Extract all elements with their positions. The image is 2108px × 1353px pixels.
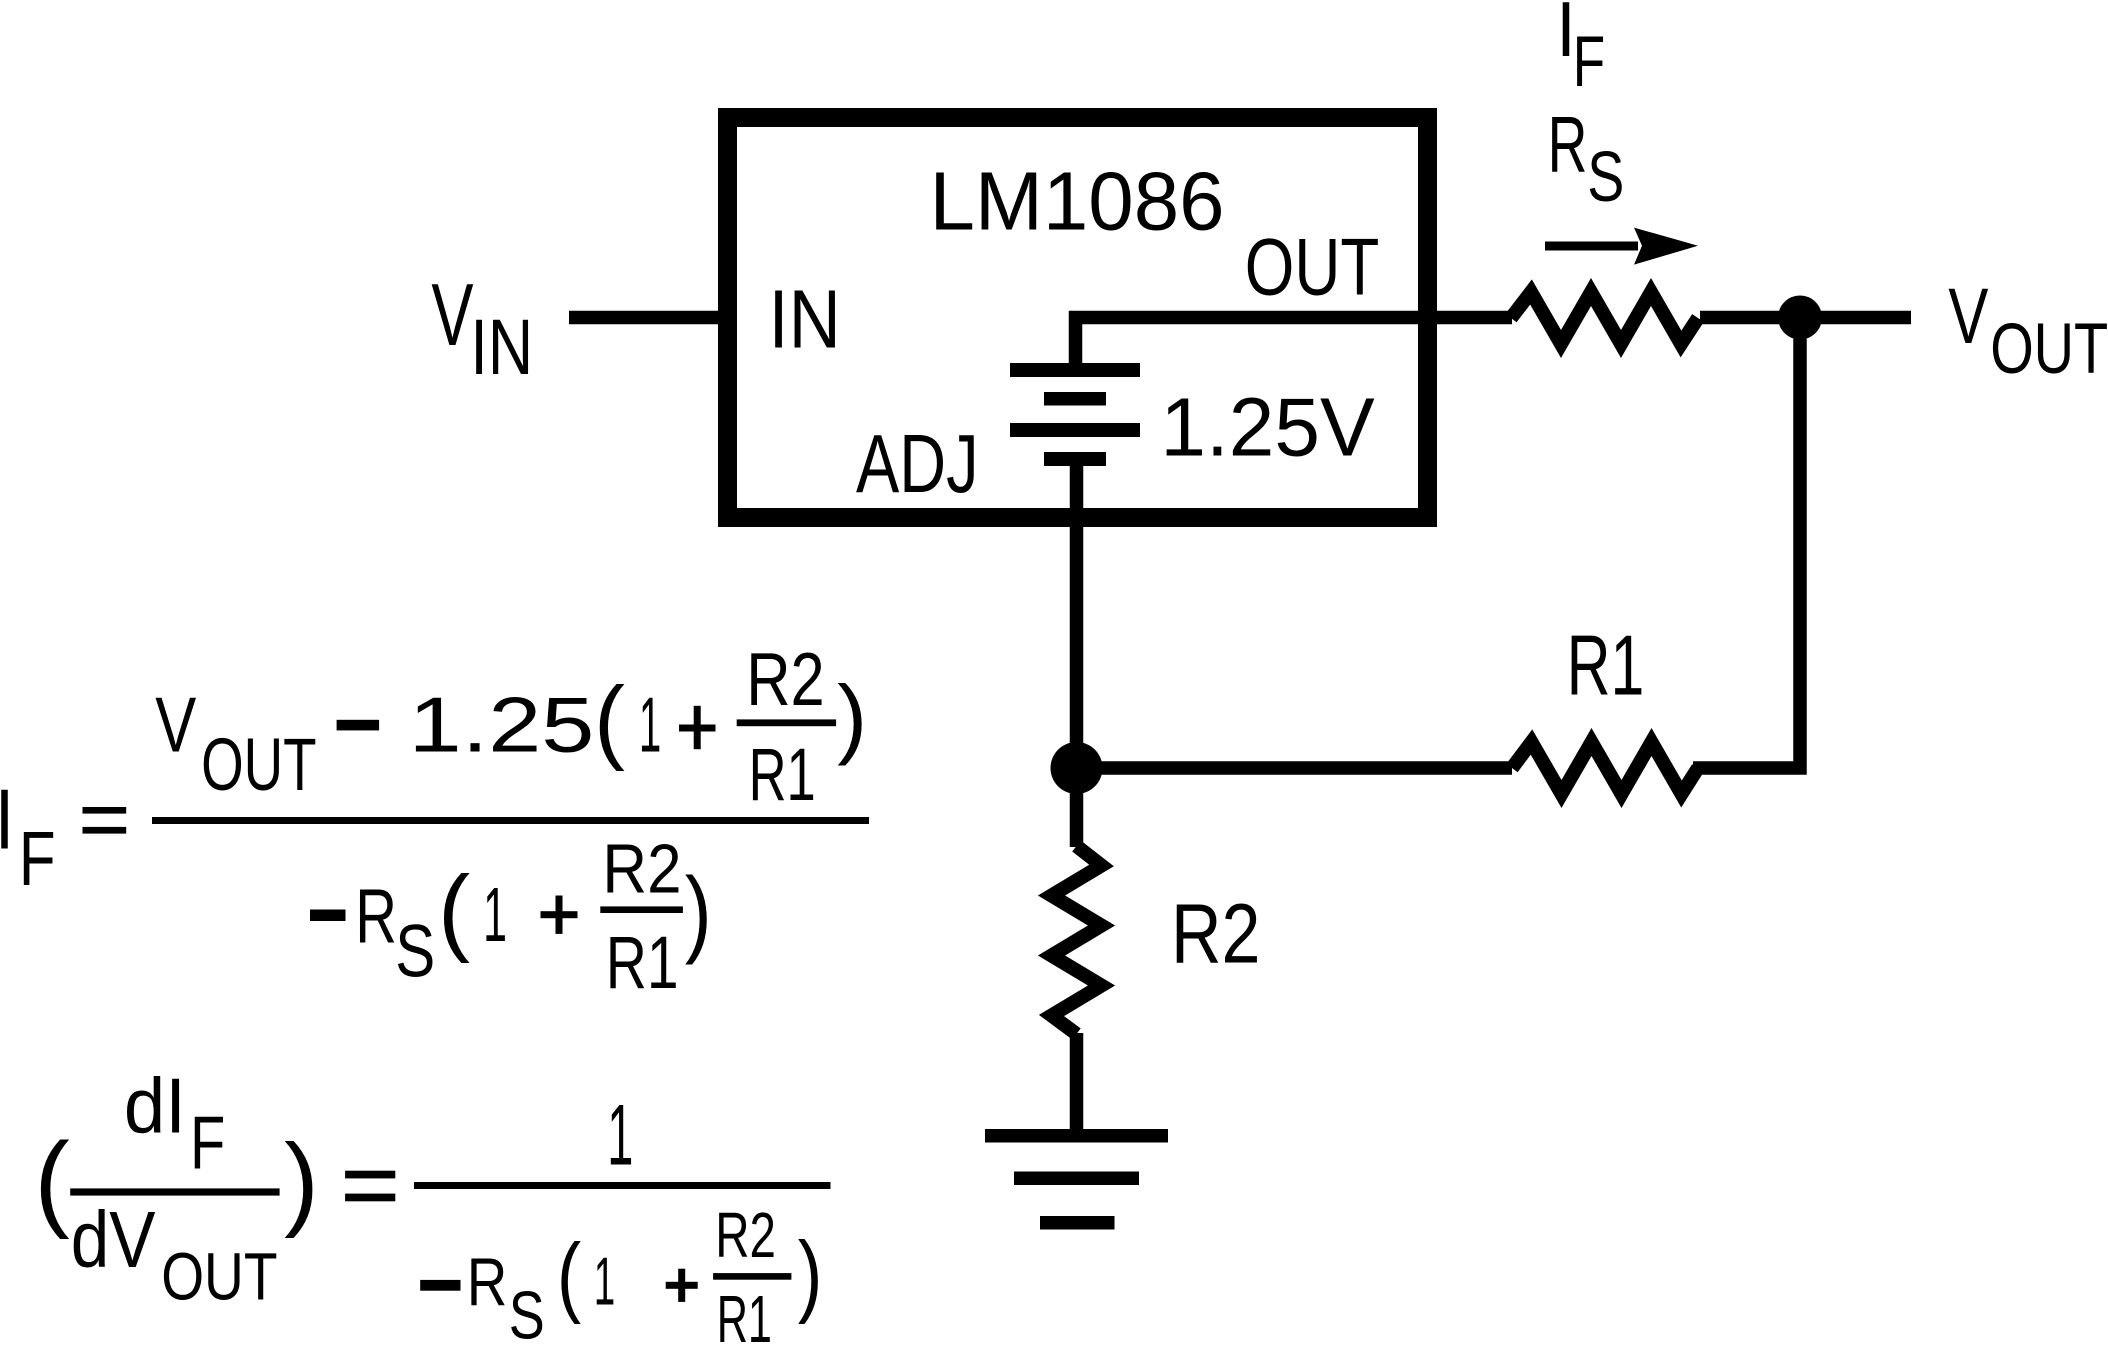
svg-text:S: S: [509, 1279, 545, 1353]
formula1 main fraction bar: [152, 817, 869, 824]
formula1 den plus horizontal: [541, 911, 578, 918]
svg-text:S: S: [1587, 137, 1624, 217]
svg-text:V: V: [155, 681, 196, 769]
formula2 den minus: [420, 1280, 460, 1291]
svg-text:dV: dV: [71, 1195, 156, 1284]
svg-text:I: I: [0, 773, 14, 868]
node VOUT dot: [1778, 296, 1822, 340]
svg-text:): ): [837, 668, 867, 766]
wire VIN to IN pin: [569, 311, 727, 325]
formula2 den mini fraction bar: [713, 1273, 791, 1280]
svg-text:IN: IN: [470, 303, 533, 391]
svg-text:R2: R2: [746, 637, 825, 721]
svg-text:R2: R2: [715, 1199, 776, 1271]
battery V1 short plate 4: [1044, 452, 1106, 466]
formula1 den plus vertical: [556, 896, 563, 934]
svg-text:(: (: [557, 1225, 582, 1325]
svg-text:dI: dI: [124, 1062, 186, 1150]
svg-text:IN: IN: [769, 273, 841, 366]
svg-text:V: V: [1948, 272, 1988, 360]
svg-text:OUT: OUT: [1990, 309, 2108, 389]
resistor R2: [1052, 846, 1102, 1034]
svg-text:F: F: [190, 1101, 225, 1185]
wire battery top stub: [1069, 311, 1083, 364]
svg-text:R: R: [1548, 100, 1588, 189]
arrow IF shaft: [1545, 242, 1638, 251]
formula1 num plus vertical: [694, 706, 701, 749]
formula1 num plus horizontal: [679, 725, 716, 732]
svg-text:OUT: OUT: [201, 723, 317, 806]
formula1 equals bottom bar: [83, 827, 127, 834]
svg-text:LM1086: LM1086: [930, 155, 1225, 248]
wire R1 to output node: [1693, 318, 1800, 768]
node A junction dot: [1051, 742, 1103, 794]
svg-text:OUT: OUT: [161, 1240, 277, 1315]
wire RS to VOUT: [1700, 311, 1911, 325]
ground bar 1: [985, 1129, 1168, 1143]
wire node A to R1: [1077, 761, 1513, 775]
formula1 num minus: [337, 720, 380, 731]
wire OUT pin net: [1069, 311, 1512, 325]
svg-text:F: F: [19, 816, 56, 902]
formula2 left fraction bar: [70, 1188, 279, 1195]
battery V1 long plate 3: [1010, 423, 1140, 437]
svg-text:R1: R1: [749, 733, 816, 816]
svg-text:R2: R2: [602, 830, 681, 908]
svg-text:R1: R1: [606, 921, 679, 1004]
ground bar 2: [1014, 1172, 1139, 1186]
svg-text:ADJ: ADJ: [856, 417, 979, 510]
formula2 equals bottom bar: [345, 1194, 395, 1202]
svg-text:S: S: [395, 910, 435, 993]
formula2 equals top bar: [345, 1171, 395, 1179]
svg-text:1: 1: [607, 1087, 633, 1183]
battery V1 short plate 2: [1044, 392, 1106, 406]
formula2 den plus horizontal: [666, 1282, 698, 1289]
formula2 den plus vertical: [678, 1269, 685, 1302]
ground bar 3: [1040, 1216, 1115, 1230]
svg-text:(: (: [438, 857, 470, 964]
formula1 equals top bar: [83, 807, 127, 814]
svg-text:1: 1: [483, 872, 507, 958]
wire ADJ net down: [1070, 465, 1084, 847]
formula1 den mini fraction bar: [600, 906, 683, 913]
svg-text:R2: R2: [1171, 886, 1261, 981]
arrow IF head: [1634, 228, 1698, 265]
formula2 right fraction bar: [414, 1182, 831, 1189]
svg-text:R: R: [355, 874, 397, 960]
resistor R1: [1512, 742, 1698, 794]
svg-text:(: (: [34, 1120, 70, 1240]
svg-text:V: V: [431, 265, 473, 364]
svg-text:1: 1: [594, 1244, 616, 1319]
svg-text:1: 1: [639, 681, 661, 769]
svg-text:): ): [685, 859, 712, 966]
svg-text:(: (: [594, 668, 625, 772]
resistor RS: [1511, 292, 1698, 344]
svg-text:1.25V: 1.25V: [1160, 381, 1374, 474]
formula1 den minus: [310, 910, 346, 922]
svg-text:OUT: OUT: [1245, 222, 1380, 312]
svg-text:R1: R1: [717, 1282, 772, 1353]
svg-text:): ): [798, 1224, 823, 1325]
regulator U1 LM1086 box: [728, 118, 1428, 518]
battery V1 1.25V long plate 1: [1010, 363, 1140, 377]
wire R2 to ground: [1070, 1033, 1084, 1136]
svg-text:): ): [284, 1122, 319, 1239]
svg-text:1.25: 1.25: [409, 681, 595, 769]
svg-text:R1: R1: [1567, 619, 1645, 714]
svg-text:F: F: [1573, 22, 1605, 102]
formula1 num mini fraction bar: [737, 719, 836, 726]
svg-text:R: R: [467, 1246, 508, 1321]
